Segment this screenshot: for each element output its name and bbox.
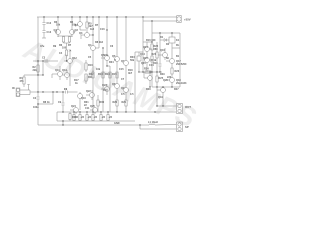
svg-text:22p: 22p — [104, 54, 109, 57]
junction dots — [37, 16, 172, 125]
resistor R7 — [68, 36, 70, 43]
resistor R26 — [171, 68, 173, 78]
resistor R24 — [145, 71, 151, 73]
svg-text:Q15: Q15 — [143, 57, 148, 60]
capacitor C12 — [43, 17, 46, 30]
wire bottom bus 2 — [57, 120, 135, 122]
svg-text:Q17: Q17 — [176, 60, 181, 63]
svg-text:Q15: Q15 — [141, 62, 146, 65]
svg-text:Q24: Q24 — [71, 105, 76, 108]
svg-text:R26: R26 — [175, 70, 180, 73]
emitter resistor RE1 — [73, 112, 75, 121]
wire bottom main rail — [38, 104, 149, 125]
emitter resistor RE6 — [107, 112, 109, 121]
svg-text:+55V: +55V — [184, 18, 191, 22]
svg-text:2SA1943: 2SA1943 — [176, 82, 187, 85]
wire feedback vertical — [42, 61, 44, 75]
transistor Q15 — [145, 58, 153, 73]
svg-text:R30: R30 — [100, 101, 105, 104]
svg-text:22k: 22k — [33, 69, 38, 72]
svg-text:R16 100: R16 100 — [146, 39, 156, 42]
svg-text:C12: C12 — [47, 22, 52, 25]
wire left boundary vertical — [37, 17, 39, 92]
wire — [171, 48, 173, 55]
wire — [92, 17, 94, 46]
label row — [37, 104, 39, 106]
svg-text:IN: IN — [12, 87, 15, 90]
svg-text:C11: C11 — [85, 107, 90, 110]
svg-text:R27: R27 — [174, 88, 179, 91]
resistor R21 — [125, 100, 127, 112]
resistor R11 — [85, 74, 87, 84]
svg-text:0.5: 0.5 — [121, 93, 125, 96]
transistor Q3 — [81, 33, 93, 40]
resistor R20 — [116, 100, 118, 112]
wire — [143, 41, 152, 43]
wire relay to output rail — [179, 48, 181, 87]
wire mid right rail — [140, 71, 162, 73]
svg-text:Q11: Q11 — [55, 69, 60, 72]
svg-text:R13: R13 — [98, 73, 103, 76]
svg-text:R8 2k2: R8 2k2 — [95, 41, 104, 44]
svg-text:100u: 100u — [33, 106, 39, 109]
wire bottom bus 1 — [57, 111, 176, 113]
transistor Q17 driver — [166, 55, 175, 68]
wire — [38, 92, 53, 104]
svg-text:Q14: Q14 — [140, 53, 145, 56]
power connector J2 — [174, 16, 181, 23]
svg-text:100: 100 — [62, 47, 67, 50]
capacitor C8 — [159, 60, 162, 72]
svg-text:R14: R14 — [105, 73, 110, 76]
svg-text:680: 680 — [154, 48, 159, 51]
transistor Q20 — [70, 108, 79, 115]
resistor R14 — [109, 72, 111, 78]
transistor Q21 — [90, 108, 98, 115]
resistor R30 — [97, 95, 99, 112]
transistor Q2 — [70, 17, 76, 37]
capacitor C3 — [45, 59, 47, 63]
wire emitter join — [58, 36, 72, 37]
wire right bottom rail — [152, 86, 180, 88]
watermark — [19, 33, 202, 134]
svg-text:SP: SP — [185, 125, 189, 129]
resistor R3 — [23, 75, 25, 87]
svg-text:10k: 10k — [96, 68, 101, 71]
svg-text:R23: R23 — [152, 53, 157, 56]
transistor Q19 — [157, 87, 166, 106]
resistor R5 — [86, 17, 88, 33]
wire second supply rail — [143, 20, 174, 22]
transistor Q13 — [62, 70, 70, 80]
svg-text:R29: R29 — [160, 73, 165, 76]
svg-text:.22: .22 — [81, 116, 85, 119]
capacitor C2 — [37, 92, 40, 104]
output connector J4 — [177, 122, 183, 132]
transistor Q16 — [158, 48, 168, 60]
svg-text:R15: R15 — [112, 73, 117, 76]
output connector J3 — [177, 104, 183, 114]
svg-text:R22: R22 — [154, 45, 159, 48]
svg-text:C16: C16 — [100, 28, 105, 31]
transistor Q22 — [86, 90, 95, 100]
diode D1 — [160, 33, 169, 60]
transistor Q9 — [124, 88, 129, 101]
svg-text:R12: R12 — [89, 73, 94, 76]
wire — [98, 17, 100, 48]
svg-text:R28: R28 — [146, 88, 151, 91]
relay box K1 — [169, 37, 180, 48]
svg-text:2SC5200: 2SC5200 — [176, 63, 187, 66]
svg-text:C13: C13 — [47, 31, 52, 34]
transistor Q11 — [52, 66, 63, 80]
wire — [62, 121, 64, 125]
svg-text:0.5: 0.5 — [130, 93, 134, 96]
svg-text:C15: C15 — [119, 68, 124, 71]
svg-text:56k: 56k — [130, 59, 135, 62]
svg-text:.22: .22 — [109, 116, 113, 119]
input connector J1 — [16, 88, 20, 97]
resistor R2 — [37, 61, 39, 75]
transistor Q14 — [145, 42, 153, 58]
wire input — [20, 90, 65, 95]
svg-text:.22: .22 — [94, 116, 98, 119]
svg-text:GND: GND — [114, 122, 120, 125]
svg-text:L1 10uH: L1 10uH — [148, 121, 158, 124]
wire tail — [64, 43, 70, 61]
wire — [92, 60, 94, 112]
transistor Q4 — [91, 46, 100, 61]
svg-text:Q19: Q19 — [158, 96, 163, 99]
resistor R10 — [85, 60, 87, 72]
wire output top pin — [157, 87, 176, 106]
svg-text:Q14: Q14 — [143, 46, 148, 49]
wire top rail — [37, 16, 174, 18]
wire zobel left — [56, 112, 58, 121]
svg-text:C10: C10 — [103, 89, 108, 92]
svg-text:R20: R20 — [113, 101, 118, 104]
transistor Q2a — [78, 17, 86, 30]
svg-text:Q12: Q12 — [72, 57, 77, 60]
svg-text:Q22: Q22 — [86, 90, 91, 93]
wire — [151, 72, 153, 87]
transistor Q10 input — [78, 92, 83, 110]
svg-text:R10: R10 — [88, 64, 93, 67]
resistor R25 — [156, 72, 158, 87]
wire input shield stub — [27, 85, 29, 91]
transistor Q6 — [115, 17, 120, 84]
transistor Q23 — [101, 84, 110, 95]
svg-text:Q13: Q13 — [62, 69, 67, 72]
capacitor C13 — [42, 31, 46, 39]
resistor R23 — [156, 42, 158, 72]
svg-text:R8 1k: R8 1k — [43, 101, 50, 104]
wire — [24, 74, 43, 76]
emitter resistor RE2 — [79, 112, 81, 121]
svg-text:47k: 47k — [20, 80, 25, 83]
svg-text:Q20: Q20 — [163, 79, 168, 82]
wire — [109, 66, 111, 112]
bias network box — [137, 52, 141, 72]
svg-text:Q10: Q10 — [81, 97, 86, 100]
wire output pair 2 — [140, 125, 176, 129]
svg-text:Q16: Q16 — [160, 49, 165, 52]
transistor Q1 — [55, 17, 61, 37]
resistor R13 — [102, 72, 104, 78]
svg-text:R21: R21 — [122, 101, 127, 104]
transistor Q18 output — [166, 78, 175, 88]
wire — [107, 65, 110, 67]
svg-text:.22: .22 — [88, 116, 92, 119]
resistor R22b — [151, 56, 153, 72]
resistor R15 — [116, 72, 118, 78]
svg-text:RL: RL — [176, 44, 180, 47]
wire — [135, 17, 143, 72]
svg-text:Q18: Q18 — [176, 79, 181, 82]
svg-text:.22: .22 — [102, 116, 106, 119]
transistor Q7 — [124, 17, 129, 88]
capacitor C1 — [66, 91, 78, 94]
svg-text:.22: .22 — [75, 116, 79, 119]
transistor Q8 — [115, 84, 120, 101]
svg-text:R19: R19 — [153, 62, 158, 65]
svg-text:R11: R11 — [88, 76, 93, 79]
wire right section top — [152, 33, 180, 48]
emitter resistor RE5 — [100, 112, 102, 121]
emitter resistor RE3 — [86, 112, 88, 121]
wire — [33, 60, 58, 62]
transistor Q15b — [144, 72, 152, 87]
svg-text:R34: R34 — [109, 61, 114, 64]
transistor Q12 — [64, 52, 73, 86]
svg-text:R24: R24 — [144, 68, 149, 71]
svg-text:10k: 10k — [56, 24, 61, 27]
wire — [134, 52, 136, 112]
svg-text:Q25: Q25 — [90, 105, 95, 108]
svg-text:1k2: 1k2 — [90, 28, 95, 31]
transistor Q5 — [101, 17, 110, 66]
emitter resistor RE4 — [92, 112, 94, 121]
zobel resistor R35 — [69, 112, 71, 121]
svg-text:4k7: 4k7 — [128, 72, 133, 75]
inductor L1 — [149, 124, 176, 125]
svg-text:Q23: Q23 — [102, 84, 107, 87]
svg-text:OUT: OUT — [185, 105, 191, 109]
resistor R6 — [62, 36, 64, 43]
svg-text:47u: 47u — [40, 45, 45, 48]
resistor R12 — [92, 70, 94, 78]
resistor R22 — [151, 21, 153, 56]
wire — [102, 48, 104, 112]
zobel capacitor C9 — [62, 92, 65, 112]
